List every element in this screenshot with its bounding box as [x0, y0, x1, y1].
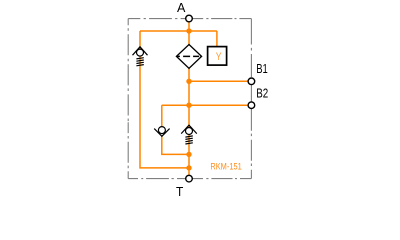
- enclosure dashed border top: [128, 18, 251, 20]
- wire inner branch upper: [161, 105, 163, 127]
- junction node lower1: [186, 152, 191, 157]
- check valve V2 (bottom left): [154, 127, 169, 137]
- svg-text:B2: B2: [256, 86, 268, 100]
- svg-text:Y: Y: [216, 51, 222, 63]
- wire to B1: [189, 80, 248, 82]
- check valve V1 (top left, with spring): [133, 47, 148, 66]
- wire left rail: [140, 31, 189, 168]
- wire to B2: [162, 104, 248, 106]
- junction node top: [186, 28, 191, 33]
- port B2: [248, 102, 255, 109]
- enclosure dashed border bottom: [128, 178, 251, 180]
- svg-text:B1: B1: [256, 62, 268, 76]
- port T: [186, 175, 193, 182]
- wire inner branch bottom: [162, 136, 189, 154]
- enclosure dashed border right: [250, 19, 252, 179]
- check valve V3 (bottom right, with spring): [181, 125, 197, 144]
- filter F1: [176, 45, 201, 69]
- enclosure dashed border left: [127, 19, 129, 179]
- port B1: [248, 78, 255, 85]
- wire Y drop: [216, 31, 218, 47]
- svg-text:RKM-151: RKM-151: [210, 162, 241, 172]
- solenoid box Y: [208, 47, 227, 66]
- svg-text:T: T: [176, 185, 184, 199]
- wire A vertical: [188, 22, 190, 45]
- wire top horizontal: [140, 30, 217, 32]
- wire center vertical: [188, 68, 190, 127]
- junction node lower2: [186, 165, 191, 170]
- wire center bottom: [188, 134, 190, 175]
- junction node B1: [186, 79, 191, 84]
- port A: [186, 15, 193, 22]
- svg-text:A: A: [177, 1, 186, 15]
- junction node B2: [186, 103, 191, 108]
